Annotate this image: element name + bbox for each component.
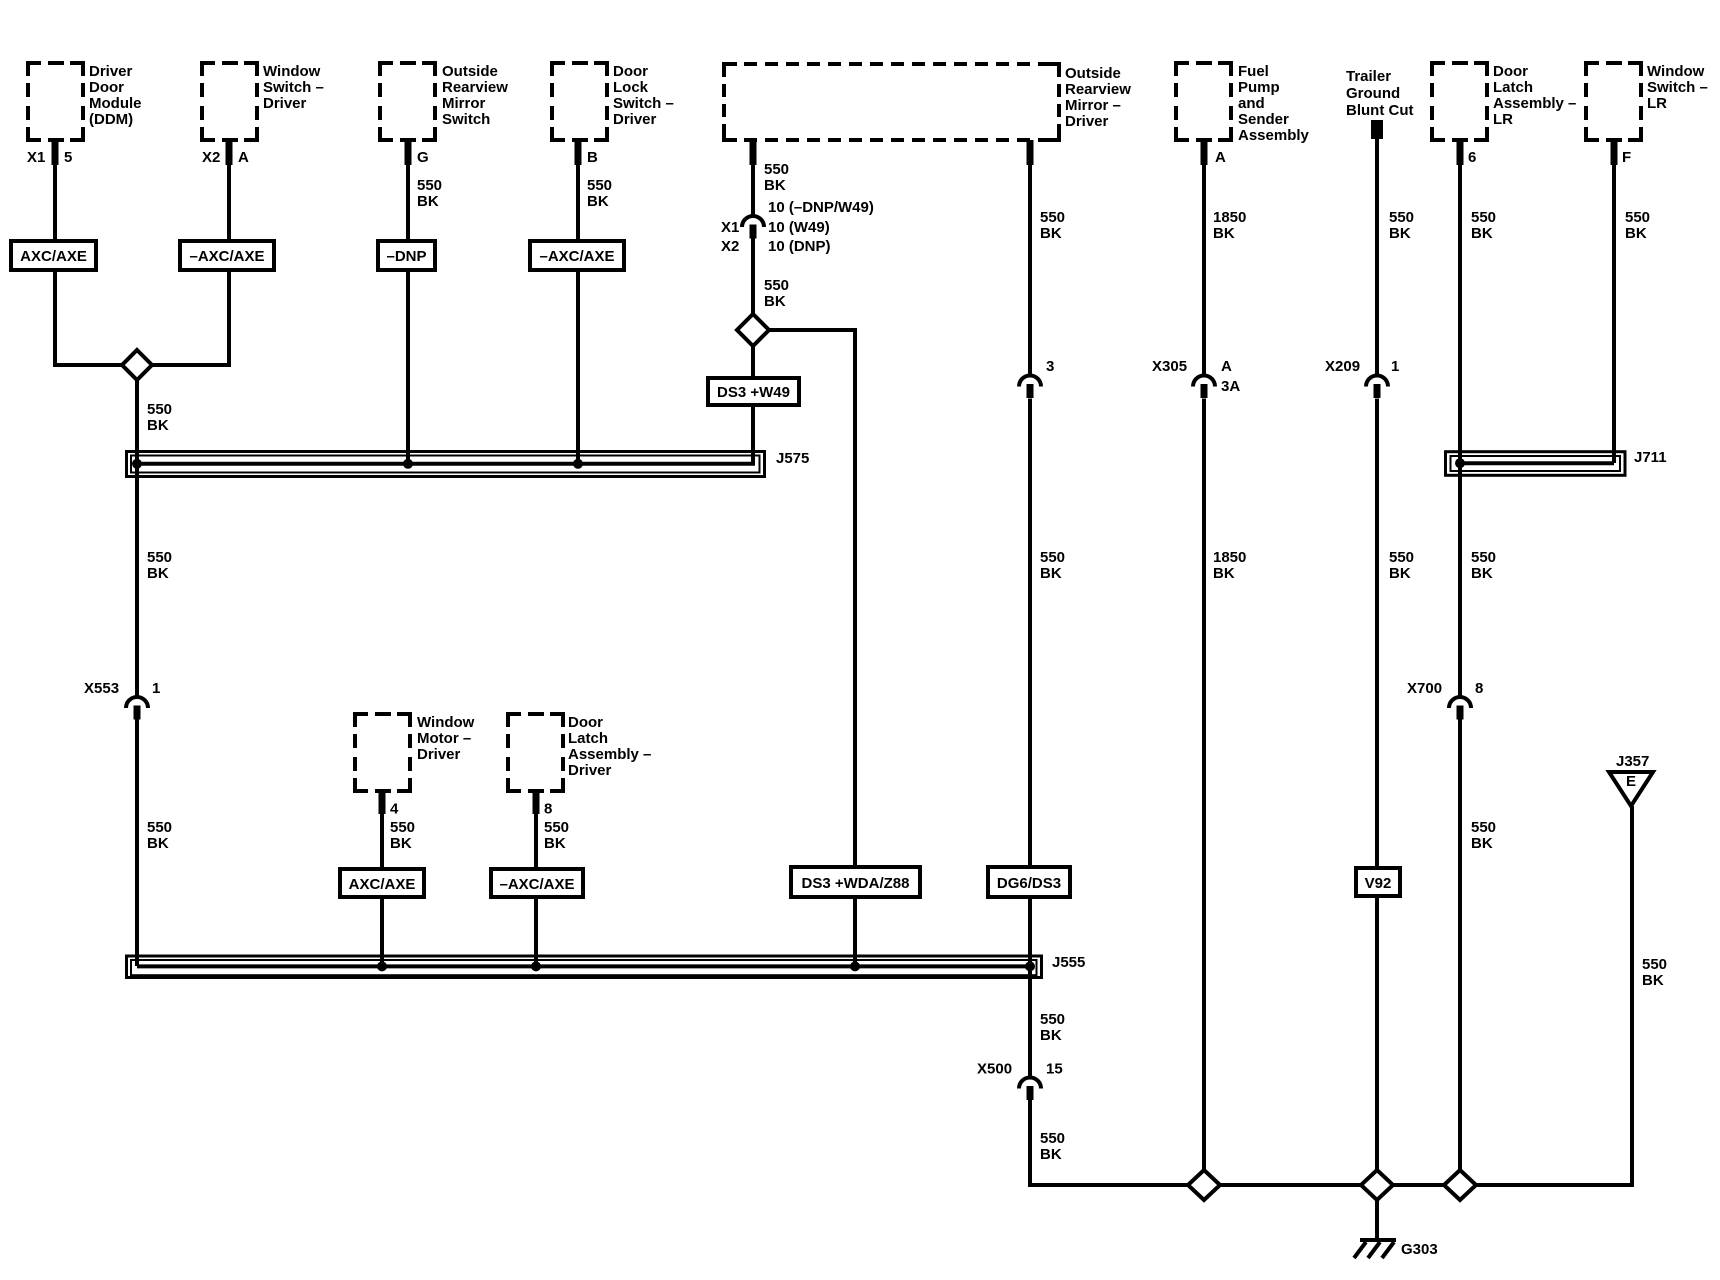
splice diamond on ground bus (door latch LR) xyxy=(1444,1170,1476,1200)
wire: DS3 +W49 down to J575 bus xyxy=(751,405,755,463)
svg-text:550: 550 xyxy=(1642,956,1667,973)
svg-text:A: A xyxy=(1221,358,1232,375)
wire label 550 BK below X1/X2 xyxy=(764,277,789,310)
inline connector X305 pins A/3A xyxy=(1152,358,1240,398)
svg-text:X500: X500 xyxy=(977,1061,1012,1078)
connector: Door Lock Switch - Driver, pin B xyxy=(552,63,674,166)
wire: mirror left pin down to inline connector X1/X2 xyxy=(751,140,755,215)
wire label 1850 BK fuel pump upper xyxy=(1213,209,1246,242)
svg-text:550: 550 xyxy=(1471,209,1496,226)
connector: Window Motor - Driver, pin 4 xyxy=(355,714,475,818)
wire label 550 BK below J575 (column 1) xyxy=(147,549,172,582)
svg-text:and: and xyxy=(1238,95,1265,112)
inline connector X553 pin 1 xyxy=(84,680,160,720)
wire: DG6/DS3 down through J555 to X500 xyxy=(1028,897,1032,1077)
label box DG6/DS3 xyxy=(988,867,1070,897)
svg-text:(DDM): (DDM) xyxy=(89,111,133,128)
svg-text:Door: Door xyxy=(568,714,603,731)
wire label 550 BK below window motor xyxy=(390,819,415,852)
svg-text:10 (W49): 10 (W49) xyxy=(768,219,830,236)
inline connector X1/X2 with labels 10 (-DNP/W49), 10 (W49), 10 (DNP) xyxy=(721,199,874,255)
svg-text:A: A xyxy=(1215,149,1226,166)
svg-text:8: 8 xyxy=(544,801,552,818)
svg-text:BK: BK xyxy=(764,293,786,310)
svg-text:550: 550 xyxy=(1040,1011,1065,1028)
wire: V92 down through ground bus to G303 xyxy=(1375,896,1379,1240)
svg-text:550: 550 xyxy=(1040,549,1065,566)
svg-text:BK: BK xyxy=(1040,1027,1062,1044)
label box -DNP (column 3) xyxy=(378,241,435,270)
svg-text:BK: BK xyxy=(544,835,566,852)
svg-text:4: 4 xyxy=(390,801,399,818)
svg-text:Assembly –: Assembly – xyxy=(1493,95,1576,112)
svg-text:10 (–DNP/W49): 10 (–DNP/W49) xyxy=(768,199,874,216)
svg-text:Ground: Ground xyxy=(1346,85,1400,102)
svg-text:Driver: Driver xyxy=(417,746,461,763)
svg-text:BK: BK xyxy=(587,193,609,210)
svg-text:–DNP: –DNP xyxy=(386,248,426,265)
wire label 550 BK below X500 xyxy=(1040,1130,1065,1163)
wire label 550 BK below J555 xyxy=(1040,1011,1065,1044)
wire: fuel pump pin A down to X305 xyxy=(1202,140,1206,375)
svg-text:–AXC/AXE: –AXC/AXE xyxy=(189,248,264,265)
svg-text:Assembly: Assembly xyxy=(1238,127,1310,144)
wire label 550 BK trailer middle xyxy=(1389,549,1414,582)
svg-text:550: 550 xyxy=(417,177,442,194)
svg-text:6: 6 xyxy=(1468,149,1476,166)
splice diamond on ground bus (trailer/G303) xyxy=(1361,1170,1393,1200)
svg-text:550: 550 xyxy=(147,401,172,418)
svg-text:Lock: Lock xyxy=(613,79,649,96)
svg-text:Driver: Driver xyxy=(613,111,657,128)
wire label 550 BK door latch LR upper xyxy=(1471,209,1496,242)
wire: X553 down to J555 bus xyxy=(135,720,139,967)
splice pack J555 xyxy=(127,954,1086,978)
svg-text:8: 8 xyxy=(1475,680,1483,697)
connector: Fuel Pump and Sender Assembly, pin A xyxy=(1176,63,1310,166)
svg-text:Switch: Switch xyxy=(442,111,490,128)
svg-text:BK: BK xyxy=(1040,1146,1062,1163)
svg-text:550: 550 xyxy=(1389,209,1414,226)
label box -AXC/AXE (column 2) xyxy=(180,241,274,270)
wire: X700 down to ground bus diamond xyxy=(1458,720,1462,1186)
svg-text:BK: BK xyxy=(1213,225,1235,242)
wire label 550 BK below X700 xyxy=(1471,819,1496,852)
svg-text:550: 550 xyxy=(544,819,569,836)
svg-text:Rearview: Rearview xyxy=(442,79,508,96)
svg-text:B: B xyxy=(587,149,598,166)
connector: Door Latch Assembly - Driver, pin 8 xyxy=(508,714,651,818)
wire: -AXC/AXE column 4 down to J575 bus xyxy=(576,270,580,463)
svg-text:BK: BK xyxy=(1040,225,1062,242)
label box AXC/AXE (column 1) xyxy=(11,241,96,270)
svg-text:A: A xyxy=(238,149,249,166)
svg-text:Motor –: Motor – xyxy=(417,730,471,747)
svg-text:J357: J357 xyxy=(1616,753,1649,770)
svg-text:BK: BK xyxy=(1040,565,1062,582)
wire label 550 BK below J711 xyxy=(1471,549,1496,582)
wire label 550 BK below left diamond xyxy=(147,401,172,434)
connector: Window Switch - Driver with pins X2/A xyxy=(202,63,324,166)
wire: blunt cut down to X209 xyxy=(1375,139,1379,375)
svg-text:1: 1 xyxy=(152,680,160,697)
wire: DDM pin 5 down to AXC/AXE label xyxy=(53,140,57,241)
ground G303 xyxy=(1354,1240,1438,1258)
svg-text:X553: X553 xyxy=(84,680,119,697)
svg-text:Latch: Latch xyxy=(568,730,608,747)
wire: -DNP down to J575 bus xyxy=(406,270,410,463)
wire: X1/X2 connector down to mirror splice diamond xyxy=(751,239,755,379)
svg-text:Latch: Latch xyxy=(1493,79,1533,96)
wire label 550 BK below door latch driver xyxy=(544,819,569,852)
wire label 550 BK column 4 xyxy=(587,177,612,210)
wire label 550 BK column 3 xyxy=(417,177,442,210)
svg-text:BK: BK xyxy=(417,193,439,210)
splice diamond (mirror ground branch) xyxy=(737,314,769,346)
svg-text:DS3 +W49: DS3 +W49 xyxy=(717,384,790,401)
splice pack J575 xyxy=(127,450,810,477)
svg-text:Rearview: Rearview xyxy=(1065,81,1131,98)
svg-text:550: 550 xyxy=(1471,549,1496,566)
svg-text:Window: Window xyxy=(263,63,321,80)
svg-text:Switch –: Switch – xyxy=(613,95,674,112)
wire: X500 down, ground bus across bottom, up to J357 xyxy=(1030,806,1632,1185)
svg-text:Window: Window xyxy=(417,714,475,731)
splice diamond on ground bus (fuel pump) xyxy=(1188,1170,1220,1200)
svg-text:F: F xyxy=(1622,149,1631,166)
svg-text:Blunt Cut: Blunt Cut xyxy=(1346,102,1413,119)
svg-text:550: 550 xyxy=(1471,819,1496,836)
svg-text:BK: BK xyxy=(1625,225,1647,242)
svg-text:BK: BK xyxy=(147,565,169,582)
svg-text:Sender: Sender xyxy=(1238,111,1289,128)
wire: AXC/AXE down and right to splice diamond xyxy=(55,270,137,365)
svg-text:Mirror –: Mirror – xyxy=(1065,97,1121,114)
label box AXC/AXE (window motor) xyxy=(340,869,424,897)
svg-text:3A: 3A xyxy=(1221,378,1240,395)
wire: -AXC/AXE down and left to splice diamond xyxy=(137,270,229,365)
wire: door latch pin 8 down to -AXC/AXE label xyxy=(534,789,538,869)
svg-text:550: 550 xyxy=(147,819,172,836)
svg-text:1850: 1850 xyxy=(1213,209,1246,226)
svg-text:5: 5 xyxy=(64,149,72,166)
svg-text:BK: BK xyxy=(1471,225,1493,242)
svg-text:BK: BK xyxy=(764,177,786,194)
svg-text:Fuel: Fuel xyxy=(1238,63,1269,80)
svg-text:LR: LR xyxy=(1647,95,1667,112)
svg-text:Mirror: Mirror xyxy=(442,95,486,112)
connector: Outside Rearview Mirror Switch, pin G xyxy=(380,63,508,166)
wire: diamond down through J575 to connector X553 xyxy=(135,380,139,696)
ring terminal J357 cavity E xyxy=(1609,753,1653,806)
wire label 550 BK trailer upper xyxy=(1389,209,1414,242)
svg-text:BK: BK xyxy=(147,835,169,852)
svg-text:1: 1 xyxy=(1391,358,1399,375)
svg-text:E: E xyxy=(1626,773,1636,790)
label box -AXC/AXE (door latch driver) xyxy=(491,869,583,897)
svg-text:BK: BK xyxy=(1471,835,1493,852)
svg-text:J711: J711 xyxy=(1634,449,1667,466)
svg-text:BK: BK xyxy=(1389,565,1411,582)
label box DS3 +W49 xyxy=(708,378,799,405)
wire: -AXC/AXE down to J555 bus xyxy=(534,897,538,966)
svg-text:X2: X2 xyxy=(202,149,220,166)
svg-text:BK: BK xyxy=(1642,972,1664,989)
svg-text:AXC/AXE: AXC/AXE xyxy=(349,876,416,893)
svg-text:X305: X305 xyxy=(1152,358,1187,375)
svg-text:DG6/DS3: DG6/DS3 xyxy=(997,875,1061,892)
svg-text:550: 550 xyxy=(390,819,415,836)
connector: Window Switch - LR, pin F xyxy=(1586,63,1708,166)
svg-text:Door: Door xyxy=(613,63,648,80)
label box -AXC/AXE (column 4) xyxy=(530,241,624,270)
wire: connector 3 down to DG6/DS3 label xyxy=(1028,399,1032,868)
svg-text:Assembly –: Assembly – xyxy=(568,746,651,763)
svg-text:Door: Door xyxy=(1493,63,1528,80)
wire: AXC/AXE down to J555 bus xyxy=(380,897,384,966)
svg-text:550: 550 xyxy=(1389,549,1414,566)
inline connector X500 pin 15 xyxy=(977,1061,1063,1101)
connector: Driver Door Module (DDM) with pins X1/5 xyxy=(27,63,142,166)
svg-text:LR: LR xyxy=(1493,111,1513,128)
wire: branch from mirror diamond right, over and down to DS3 +WDA/Z88 xyxy=(753,330,855,867)
wire: mirror switch G down to -DNP label xyxy=(406,140,410,241)
wire label 550 BK window switch LR xyxy=(1625,209,1650,242)
svg-text:BK: BK xyxy=(1389,225,1411,242)
svg-text:15: 15 xyxy=(1046,1061,1063,1078)
svg-text:550: 550 xyxy=(1040,209,1065,226)
svg-text:AXC/AXE: AXC/AXE xyxy=(20,248,87,265)
wire: window motor pin 4 down to AXC/AXE label xyxy=(380,789,384,869)
splice diamond (left, joins X1 and X2 grounds) xyxy=(122,350,152,380)
svg-text:BK: BK xyxy=(390,835,412,852)
svg-text:X1: X1 xyxy=(27,149,45,166)
connector: Outside Rearview Mirror - Driver (wide dashed box) xyxy=(724,64,1131,165)
svg-text:X1: X1 xyxy=(721,219,739,236)
svg-text:550: 550 xyxy=(764,277,789,294)
inline connector X700 pin 8 xyxy=(1407,680,1483,720)
svg-text:–AXC/AXE: –AXC/AXE xyxy=(539,248,614,265)
svg-text:Outside: Outside xyxy=(1065,65,1121,82)
svg-text:X2: X2 xyxy=(721,238,739,255)
svg-text:Driver: Driver xyxy=(1065,113,1109,130)
svg-text:X700: X700 xyxy=(1407,680,1442,697)
wire: Window Switch driver down to -AXC/AXE label xyxy=(227,140,231,241)
svg-text:3: 3 xyxy=(1046,358,1054,375)
svg-text:J575: J575 xyxy=(776,450,809,467)
svg-text:Pump: Pump xyxy=(1238,79,1280,96)
svg-text:V92: V92 xyxy=(1365,875,1392,892)
svg-text:Door: Door xyxy=(89,79,124,96)
svg-text:BK: BK xyxy=(147,417,169,434)
wire: X305 down to ground bus diamond xyxy=(1202,399,1206,1186)
wire label 550 BK below X553 xyxy=(147,819,172,852)
svg-text:BK: BK xyxy=(1213,565,1235,582)
inline connector X209 pin 1 xyxy=(1325,358,1399,398)
wire label 550 BK, mirror right pin xyxy=(1040,209,1065,242)
svg-text:Switch –: Switch – xyxy=(1647,79,1708,96)
svg-text:Module: Module xyxy=(89,95,142,112)
svg-text:550: 550 xyxy=(1040,1130,1065,1147)
svg-text:550: 550 xyxy=(147,549,172,566)
splice pack J711 xyxy=(1446,449,1667,475)
label box DS3 +WDA/Z88 xyxy=(791,867,920,897)
svg-text:Trailer: Trailer xyxy=(1346,68,1391,85)
svg-text:10 (DNP): 10 (DNP) xyxy=(768,238,831,255)
wire label 550 BK below connector 3 xyxy=(1040,549,1065,582)
svg-text:Driver: Driver xyxy=(263,95,307,112)
svg-text:DS3 +WDA/Z88: DS3 +WDA/Z88 xyxy=(802,875,910,892)
svg-text:Driver: Driver xyxy=(89,63,133,80)
trailer ground blunt cut terminal xyxy=(1346,68,1413,139)
wire: mirror right pin down to inline connector 3 xyxy=(1028,140,1032,375)
wire label 550 BK below J357 xyxy=(1642,956,1667,989)
svg-text:Window: Window xyxy=(1647,63,1705,80)
svg-text:550: 550 xyxy=(1625,209,1650,226)
wire: door lock switch B down to -AXC/AXE label xyxy=(576,140,580,241)
svg-text:X209: X209 xyxy=(1325,358,1360,375)
svg-text:550: 550 xyxy=(587,177,612,194)
svg-text:G: G xyxy=(417,149,429,166)
inline connector pin 3 (mirror ground) xyxy=(1019,358,1054,398)
label box V92 xyxy=(1356,868,1400,896)
svg-text:1850: 1850 xyxy=(1213,549,1246,566)
wire: DS3 +WDA/Z88 down to J555 bus xyxy=(853,897,857,966)
connector: Door Latch Assembly - LR, pin 6 xyxy=(1432,63,1576,166)
svg-text:Driver: Driver xyxy=(568,762,612,779)
wire: X209 down to V92 label xyxy=(1375,399,1379,869)
wire: door latch LR pin 6 down through J711 to X700 xyxy=(1458,140,1462,696)
svg-text:G303: G303 xyxy=(1401,1241,1438,1258)
svg-text:J555: J555 xyxy=(1052,954,1085,971)
wire label 550 BK, mirror left pin xyxy=(764,161,789,194)
wire label 1850 BK fuel pump lower xyxy=(1213,549,1246,582)
svg-text:BK: BK xyxy=(1471,565,1493,582)
svg-text:550: 550 xyxy=(764,161,789,178)
svg-text:Switch –: Switch – xyxy=(263,79,324,96)
svg-text:–AXC/AXE: –AXC/AXE xyxy=(499,876,574,893)
svg-text:Outside: Outside xyxy=(442,63,498,80)
wire: window switch LR pin F down to J711 bus xyxy=(1612,140,1616,463)
